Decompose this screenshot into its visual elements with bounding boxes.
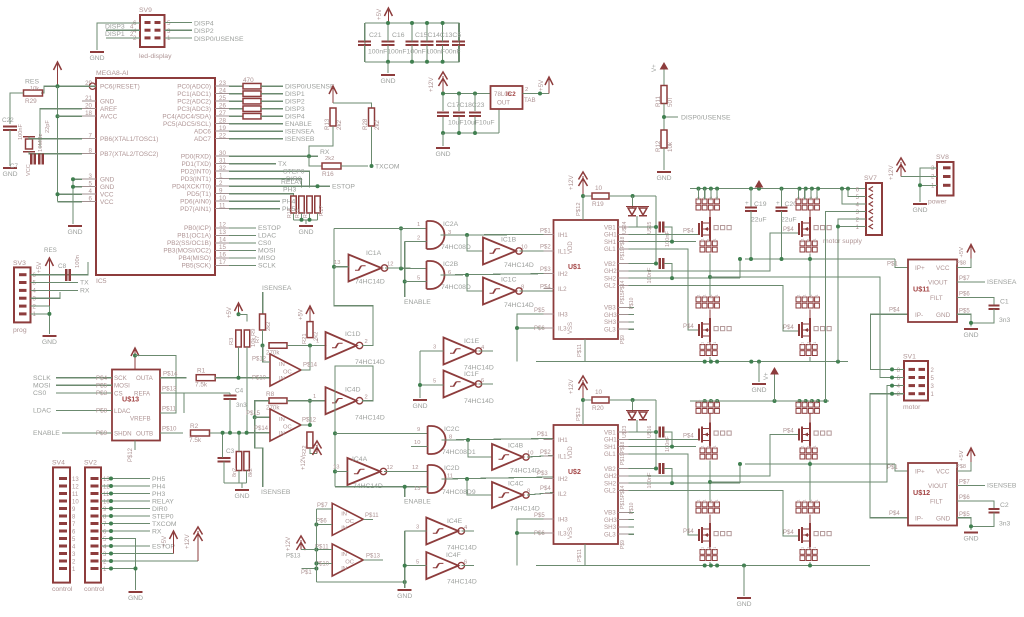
svg-text:FILT: FILT bbox=[930, 499, 943, 506]
svg-text:8k2: 8k2 bbox=[248, 468, 254, 477]
svg-text:AVCC: AVCC bbox=[100, 114, 118, 121]
svg-text:DISP1: DISP1 bbox=[285, 91, 305, 98]
node junction R3 top bbox=[237, 312, 241, 316]
svg-text:74HC14D: 74HC14D bbox=[504, 262, 534, 269]
wire P$15 to comparator B plus input bbox=[255, 416, 270, 418]
power V+ arrow rail A bbox=[758, 185, 760, 189]
svg-text:VB1: VB1 bbox=[604, 224, 616, 231]
svg-text:VSS: VSS bbox=[568, 527, 574, 539]
wire SV7 pin4 bbox=[842, 189, 866, 204]
connector SV7 motor supply bbox=[866, 183, 882, 235]
svg-text:3: 3 bbox=[416, 525, 419, 531]
wire vertical to IC2A pin1 bbox=[400, 228, 402, 268]
wire DISP1 into SV9 bbox=[106, 37, 140, 39]
svg-text:4: 4 bbox=[133, 28, 137, 35]
svg-text:control: control bbox=[84, 586, 105, 593]
svg-text:VDD: VDD bbox=[568, 241, 574, 254]
resistor R19 10 bbox=[583, 195, 592, 197]
svg-text:P$4: P$4 bbox=[783, 227, 794, 233]
wire cap bank rails bbox=[365, 22, 460, 24]
connector SV4 control bbox=[53, 467, 70, 582]
ground GND below IC5 bbox=[68, 225, 82, 227]
svg-text:C17C18C23: C17C18C23 bbox=[447, 102, 485, 109]
power +5V arrow near reset bbox=[57, 64, 59, 86]
svg-text:IH1: IH1 bbox=[558, 437, 568, 444]
svg-text:TX: TX bbox=[278, 161, 287, 168]
svg-text:PB1(OC1A): PB1(OC1A) bbox=[177, 233, 211, 240]
power +12V arrow control bbox=[197, 531, 199, 561]
wire DISP4 from SV9 bbox=[165, 22, 193, 24]
svg-text:PD3(INT1): PD3(INT1) bbox=[180, 176, 211, 183]
wire P$1 into aux bus bbox=[302, 568, 317, 570]
ground GND aux bbox=[404, 582, 406, 588]
wire U$11 FILT to cap bbox=[957, 298, 994, 306]
svg-text:5: 5 bbox=[416, 559, 419, 565]
wire motor V+ rail A bbox=[690, 188, 866, 190]
svg-text:74HC14D: 74HC14D bbox=[464, 398, 494, 405]
node junction U$1 12V bbox=[581, 194, 585, 198]
wire SH2 row to right phase U$2 bbox=[629, 482, 741, 484]
wire C3 top bbox=[222, 433, 224, 458]
wire OUTB P$10 to R2 bbox=[160, 432, 183, 434]
svg-text:IN: IN bbox=[279, 376, 285, 382]
wire control ESTOP row4 bbox=[101, 545, 150, 547]
svg-text:GL2: GL2 bbox=[604, 283, 616, 290]
node junction diode feed U$2 bbox=[631, 398, 635, 402]
power +5V arrow U$12 bbox=[970, 450, 972, 462]
wire VB1 row U$1 bbox=[629, 226, 658, 228]
svg-text:P$8: P$8 bbox=[96, 408, 108, 415]
svg-text:74HC14D: 74HC14D bbox=[504, 302, 534, 309]
svg-text:16MHz: 16MHz bbox=[38, 134, 44, 152]
svg-text:IC4B: IC4B bbox=[508, 443, 524, 450]
inverter IC1E bbox=[444, 338, 476, 365]
svg-text:GND: GND bbox=[128, 595, 143, 602]
wire prog pin1 to ground bbox=[31, 313, 50, 315]
svg-text:GND: GND bbox=[2, 171, 17, 178]
svg-text:P$5: P$5 bbox=[959, 512, 970, 518]
wire C8 net bbox=[73, 274, 88, 276]
svg-text:STEP0: STEP0 bbox=[152, 513, 174, 520]
svg-text:+5V: +5V bbox=[299, 309, 305, 320]
svg-text:VSS: VSS bbox=[568, 322, 574, 334]
ground GND prog bbox=[42, 335, 56, 337]
svg-text:OUTA: OUTA bbox=[136, 375, 154, 382]
svg-text:P$3: P$3 bbox=[540, 267, 551, 273]
svg-text:3n3: 3n3 bbox=[999, 317, 1011, 324]
svg-text:P$8: P$8 bbox=[956, 464, 966, 470]
svg-text:10k R9: 10k R9 bbox=[251, 329, 257, 347]
wire R7 bottom node N1 bbox=[262, 330, 264, 346]
node junctions aux2 bbox=[314, 548, 318, 552]
svg-text:3: 3 bbox=[433, 345, 436, 351]
svg-text:IC2B: IC2B bbox=[443, 261, 459, 268]
svg-text:IN: IN bbox=[279, 362, 285, 368]
wire control DIR0 bbox=[101, 508, 150, 510]
wire PH5 from PD7 bbox=[229, 208, 280, 210]
svg-text:GH3: GH3 bbox=[604, 517, 617, 524]
wire IC4E output stub bbox=[462, 530, 475, 532]
svg-text:V+: V+ bbox=[651, 64, 658, 72]
wire VB2 row U$1 bbox=[629, 263, 658, 265]
svg-text:S1: S1 bbox=[703, 400, 707, 404]
power +5V arrow R3 R9 bbox=[238, 305, 240, 314]
wire GL1 gate U$2 bbox=[629, 454, 700, 535]
wire feedback node to R21 bbox=[287, 345, 326, 347]
node junction prog gnd bbox=[47, 312, 51, 316]
svg-text:P$1: P$1 bbox=[887, 465, 898, 471]
svg-text:+12V: +12V bbox=[428, 77, 435, 92]
node junction RX bbox=[307, 154, 311, 158]
svg-text:P$4: P$4 bbox=[96, 375, 108, 382]
inverter IC4F bbox=[426, 552, 458, 579]
svg-text:P$4: P$4 bbox=[683, 529, 694, 535]
svg-text:1: 1 bbox=[167, 35, 171, 42]
wire IC4A output to IC2D pin12 bbox=[384, 471, 428, 473]
wire P$13 loop bbox=[160, 393, 184, 413]
resistor R29 bbox=[24, 90, 43, 96]
wire U$13 vcc loop to P$11 bbox=[135, 356, 176, 414]
svg-text:VDD: VDD bbox=[568, 446, 574, 459]
svg-text:ISENSEB: ISENSEB bbox=[285, 136, 315, 143]
svg-text:10: 10 bbox=[521, 245, 527, 251]
wire DIR0 from PD3 bbox=[229, 179, 302, 188]
wire IC1E IC1F inputs to ground bbox=[420, 350, 444, 352]
svg-text:ISENSEB: ISENSEB bbox=[987, 483, 1017, 490]
svg-text:OC: OC bbox=[345, 560, 354, 566]
svg-text:C19: C19 bbox=[754, 201, 767, 208]
svg-text:C21: C21 bbox=[369, 32, 382, 39]
svg-text:S1: S1 bbox=[713, 238, 717, 242]
ground GND spare inverters bbox=[413, 399, 427, 401]
svg-text:PD4(XCK/T0): PD4(XCK/T0) bbox=[172, 184, 211, 191]
svg-text:MOSI: MOSI bbox=[114, 383, 130, 390]
svg-text:9: 9 bbox=[417, 427, 420, 433]
svg-text:13: 13 bbox=[333, 465, 339, 471]
wire IC2D pin13 from trunk bottom bbox=[335, 486, 428, 488]
ground GND U$11 bbox=[964, 328, 978, 330]
svg-text:R11: R11 bbox=[655, 96, 662, 107]
wire SH2 row to right phase U$1 bbox=[629, 277, 741, 279]
wire IC4D output loop to trunk B bbox=[335, 366, 373, 487]
svg-text:CS0: CS0 bbox=[258, 240, 271, 247]
svg-text:+5V: +5V bbox=[376, 8, 383, 20]
svg-text:10: 10 bbox=[595, 389, 603, 396]
svg-text:S1: S1 bbox=[809, 400, 813, 404]
wire ESTOP from port B bbox=[229, 227, 256, 229]
wire CS0 P$3 into U$13 bbox=[56, 392, 112, 394]
wire AREF stub bbox=[40, 109, 82, 148]
svg-text:U$23: U$23 bbox=[622, 425, 628, 438]
wire control row3 to +5V bbox=[101, 553, 174, 555]
svg-text:GL1: GL1 bbox=[604, 246, 616, 253]
svg-text:P$13: P$13 bbox=[286, 553, 301, 560]
power +12V arrow aux bbox=[300, 540, 302, 550]
svg-text:R13: R13 bbox=[324, 118, 331, 130]
inverter IC4D bbox=[326, 387, 357, 414]
svg-text:P$11: P$11 bbox=[365, 513, 379, 519]
wire U$11 VIOUT to ISENSEA bbox=[957, 281, 985, 283]
connector SV3 prog bbox=[14, 267, 31, 322]
svg-text:P$10: P$10 bbox=[162, 426, 177, 433]
wire phase rail A bbox=[745, 258, 895, 260]
svg-text:ENABLE: ENABLE bbox=[404, 299, 431, 306]
ground GND below C22 bbox=[3, 167, 17, 169]
svg-text:P$4: P$4 bbox=[683, 433, 694, 439]
wire SCLK P$4 into U$13 bbox=[56, 377, 112, 379]
power +12V arrow R22 bbox=[316, 445, 318, 454]
svg-text:+12V: +12V bbox=[888, 165, 895, 180]
svg-text:S1: S1 bbox=[715, 499, 719, 503]
svg-text:P$4: P$4 bbox=[540, 486, 551, 492]
wire ENABLE vertical A bbox=[404, 242, 406, 298]
svg-text:SCLK: SCLK bbox=[258, 263, 276, 270]
wire ENABLE vertical B bbox=[404, 487, 406, 497]
resistor R12 10k bbox=[661, 130, 667, 148]
svg-text:S1: S1 bbox=[707, 238, 711, 242]
svg-text:S1: S1 bbox=[700, 238, 704, 242]
wire motor V+ rail B bbox=[690, 400, 829, 402]
svg-text:S1: S1 bbox=[813, 238, 817, 242]
svg-text:IL2: IL2 bbox=[558, 491, 567, 498]
power +12V arrow SV8 bbox=[900, 162, 902, 177]
and gate IC2B bbox=[427, 261, 445, 289]
ground GND control bbox=[129, 591, 143, 593]
connector SV2 control bbox=[85, 467, 101, 582]
svg-text:U$15: U$15 bbox=[647, 221, 653, 234]
wire AVCC to +5V bbox=[58, 115, 83, 117]
wire phase B to U$12 bbox=[895, 464, 908, 471]
svg-text:VB2: VB2 bbox=[604, 466, 616, 473]
wire bootstrap1 return U$2 bbox=[664, 432, 672, 447]
resistor R17 pulldown bbox=[315, 196, 321, 213]
svg-text:VREFB: VREFB bbox=[130, 415, 151, 422]
node junction divider bbox=[662, 115, 666, 119]
svg-text:SH1: SH1 bbox=[604, 444, 617, 451]
wire U$2 top pin P$12 bbox=[582, 400, 584, 425]
wire GH1 gate U$1 bbox=[629, 233, 700, 235]
power V+ arrow rail B bbox=[774, 372, 776, 401]
svg-text:+12V: +12V bbox=[568, 175, 575, 190]
svg-text:RES: RES bbox=[44, 247, 57, 254]
svg-text:VB3: VB3 bbox=[604, 510, 616, 517]
wire PH3 from PD5 bbox=[229, 194, 294, 196]
svg-text:P$5: P$5 bbox=[534, 308, 545, 314]
svg-text:3n3: 3n3 bbox=[999, 521, 1011, 528]
svg-text:+5V: +5V bbox=[959, 450, 965, 461]
svg-text:PB4(MISO): PB4(MISO) bbox=[178, 255, 211, 262]
wire SV7 pin2 pin1 to source rail bbox=[838, 219, 866, 362]
capacitor C3 bbox=[218, 457, 231, 459]
svg-text:R15: R15 bbox=[295, 208, 301, 218]
svg-text:8n2: 8n2 bbox=[232, 468, 238, 477]
wire LDAC from port B bbox=[229, 234, 256, 236]
svg-text:DISP3: DISP3 bbox=[285, 106, 305, 113]
svg-text:R21: R21 bbox=[302, 333, 308, 344]
svg-text:22uF: 22uF bbox=[781, 217, 797, 224]
transistor half-bridge B right bbox=[796, 402, 801, 407]
resistor R15 pulldown bbox=[299, 196, 305, 213]
wire prog RX bbox=[31, 289, 79, 291]
wire control TXCOM bbox=[101, 523, 150, 525]
svg-text:S1: S1 bbox=[796, 499, 800, 503]
svg-text:5: 5 bbox=[433, 379, 436, 385]
svg-text:2: 2 bbox=[130, 31, 134, 38]
svg-text:S1: S1 bbox=[713, 445, 717, 449]
svg-text:P$9: P$9 bbox=[620, 335, 626, 344]
svg-text:DISP0/USENSE: DISP0/USENSE bbox=[194, 36, 244, 43]
ground GND at SV9 bbox=[90, 51, 104, 53]
wire prog pin3 bbox=[31, 292, 61, 298]
wire R19 to VB rail bbox=[609, 195, 656, 197]
svg-text:P$11: P$11 bbox=[162, 406, 177, 413]
svg-text:R2: R2 bbox=[190, 423, 199, 430]
ground GND 12V caps bbox=[442, 133, 444, 146]
wire control row5 to gnd bus bbox=[101, 539, 136, 591]
svg-text:IC1A: IC1A bbox=[366, 250, 382, 257]
wire RELAY ESTOP from PD4 bbox=[229, 185, 330, 187]
svg-text:P$1: P$1 bbox=[537, 432, 548, 438]
ic IC5 MEGA8-AI body bbox=[96, 78, 215, 275]
svg-text:P$12: P$12 bbox=[576, 202, 582, 216]
svg-text:S1: S1 bbox=[800, 445, 804, 449]
svg-text:PH4: PH4 bbox=[282, 199, 295, 206]
svg-text:P$12: P$12 bbox=[302, 418, 317, 424]
svg-text:R2: R2 bbox=[303, 211, 309, 218]
wire IC1A output to IC2B pin4 bbox=[385, 267, 427, 270]
wire RX net from PD0 bbox=[229, 155, 318, 157]
resistor R16 2k2 bbox=[322, 163, 341, 169]
wire comparator B output bbox=[301, 401, 310, 425]
svg-text:IC2: IC2 bbox=[506, 91, 516, 98]
svg-text:AREF: AREF bbox=[100, 106, 117, 113]
wire +5V to R9 bbox=[239, 314, 248, 321]
wire SV1 row2 from phase A left bbox=[710, 277, 904, 378]
svg-text:TXCOM: TXCOM bbox=[375, 164, 400, 171]
svg-text:S1: S1 bbox=[709, 400, 713, 404]
regulator IC2 78L05 body bbox=[491, 86, 523, 109]
ic U$13 DAC body bbox=[112, 370, 160, 441]
svg-text:GND: GND bbox=[912, 207, 927, 214]
ground GND cap bank bbox=[381, 74, 395, 76]
wire SV7 pin3 to rail B bbox=[826, 212, 867, 402]
resistor R3 bbox=[236, 330, 242, 347]
node junction phase B left bbox=[708, 480, 712, 484]
svg-text:GND: GND bbox=[397, 593, 412, 600]
svg-text:SV4: SV4 bbox=[52, 460, 65, 467]
wire LDAC P$8 into U$13 bbox=[56, 410, 112, 412]
svg-text:2: 2 bbox=[365, 339, 368, 345]
svg-text:GND: GND bbox=[100, 99, 115, 106]
svg-text:S1: S1 bbox=[707, 342, 711, 346]
svg-text:VB2: VB2 bbox=[604, 261, 616, 268]
svg-text:SCK: SCK bbox=[114, 375, 128, 382]
wire R28 bottom to TXCOM bbox=[371, 126, 373, 166]
svg-text:100nF: 100nF bbox=[18, 124, 24, 140]
wire IC2B output P$3 to U$1 bbox=[441, 274, 554, 276]
capacitor bootstrap 100nF high U$2 bbox=[659, 427, 661, 438]
svg-text:S1: S1 bbox=[696, 499, 700, 503]
inverter IC4B bbox=[492, 444, 523, 470]
svg-text:+: + bbox=[776, 200, 780, 207]
svg-text:IC4D: IC4D bbox=[345, 387, 361, 394]
wire IC4F output stub bbox=[462, 565, 475, 567]
svg-text:PC3(ADC3): PC3(ADC3) bbox=[177, 106, 211, 113]
wire DISP2 from SV9 bbox=[165, 29, 193, 31]
svg-text:VB3: VB3 bbox=[604, 305, 616, 312]
wire SH1 row U$2 bbox=[629, 446, 697, 448]
capacitor C20 22uF bbox=[781, 189, 783, 208]
wire SH1 row U$1 bbox=[629, 241, 697, 243]
inverter IC1C bbox=[483, 278, 516, 305]
svg-text:DISP2: DISP2 bbox=[194, 28, 214, 35]
wire P$15 down to ISENSEB bbox=[255, 417, 263, 487]
svg-text:S1: S1 bbox=[696, 400, 700, 404]
svg-text:R28: R28 bbox=[362, 118, 369, 130]
wire R3 bottom to input node bbox=[238, 347, 240, 378]
wire SV9 pin6 to GND bbox=[97, 23, 140, 50]
svg-text:P$4: P$4 bbox=[540, 285, 551, 291]
capacitor C19 22uF bbox=[750, 189, 752, 208]
svg-text:74HC14D: 74HC14D bbox=[447, 545, 477, 552]
capacitor C13 100nF bbox=[436, 40, 449, 42]
svg-text:IC1F: IC1F bbox=[464, 371, 479, 378]
wire STEP0 from PD2 bbox=[229, 171, 310, 187]
wire R10 top bbox=[238, 433, 240, 452]
svg-text:DISP2: DISP2 bbox=[285, 99, 305, 106]
svg-text:LDAC: LDAC bbox=[258, 233, 276, 240]
node junction reg out bbox=[538, 92, 542, 96]
node junction aux1 bbox=[314, 523, 318, 527]
svg-text:GND: GND bbox=[412, 403, 427, 410]
svg-text:P$15P$14: P$15P$14 bbox=[620, 485, 626, 509]
svg-text:GND: GND bbox=[936, 312, 951, 319]
svg-text:2k2: 2k2 bbox=[325, 156, 334, 162]
svg-text:P$5: P$5 bbox=[534, 513, 545, 519]
wire R1 to comparator A input bbox=[215, 377, 270, 379]
wire aux comp1 inputs bbox=[316, 508, 332, 510]
svg-text:IN: IN bbox=[341, 552, 347, 558]
svg-text:11: 11 bbox=[72, 492, 79, 498]
wire IC4B input tap bbox=[468, 440, 492, 457]
wire U$12 FILT to cap bbox=[957, 501, 994, 509]
svg-text:VB1: VB1 bbox=[604, 429, 616, 436]
svg-text:PC5(ADC5/SCL): PC5(ADC5/SCL) bbox=[163, 121, 211, 128]
transistor half-bridge A right bbox=[796, 199, 801, 204]
diode pair U$23 U$16 bbox=[632, 400, 634, 412]
svg-text:PC1(ADC1): PC1(ADC1) bbox=[177, 91, 211, 98]
svg-text:4: 4 bbox=[130, 24, 134, 31]
svg-text:PC6(/RESET): PC6(/RESET) bbox=[100, 84, 140, 91]
svg-text:IH2: IH2 bbox=[558, 271, 568, 278]
svg-text:7.5k: 7.5k bbox=[189, 437, 202, 444]
svg-text:74HC14D: 74HC14D bbox=[355, 359, 385, 366]
svg-text:P$1: P$1 bbox=[301, 570, 312, 576]
svg-text:P$8: P$8 bbox=[956, 261, 966, 267]
svg-text:C7: C7 bbox=[10, 163, 18, 170]
svg-text:VIOUT: VIOUT bbox=[928, 280, 948, 287]
capacitor C18 10uF bbox=[453, 111, 465, 113]
wire U$2 bottom pin P$11 bbox=[584, 544, 586, 566]
svg-text:IL1: IL1 bbox=[558, 248, 567, 255]
resistor R35 array to DISP4 bbox=[229, 115, 243, 117]
svg-text:DISP0/USENSE: DISP0/USENSE bbox=[681, 115, 731, 122]
wire comparator A plus input jog bbox=[263, 346, 270, 363]
ground GND divider bbox=[657, 171, 671, 173]
svg-text:PC0(ADC0): PC0(ADC0) bbox=[177, 84, 211, 91]
wire GH2 gate U$1 bbox=[629, 233, 800, 271]
svg-text:C3: C3 bbox=[226, 448, 235, 455]
